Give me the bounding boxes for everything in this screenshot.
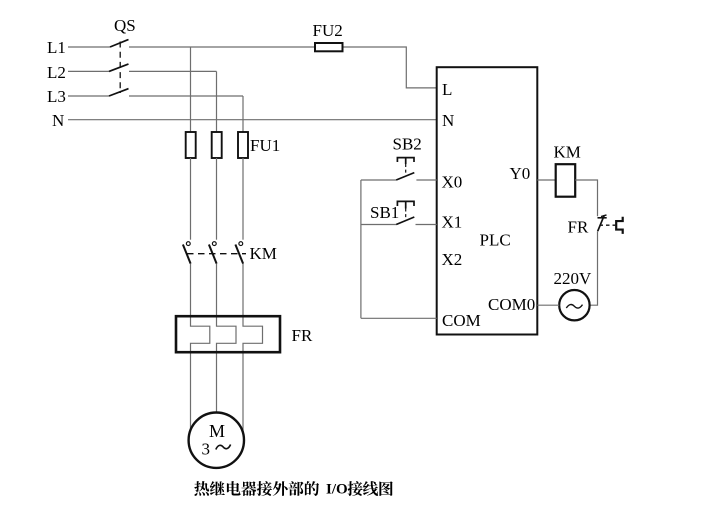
svg-text:PLC: PLC <box>480 231 511 250</box>
wire phase A drop <box>190 47 192 132</box>
thermal relay FR heater box <box>176 316 280 352</box>
svg-text:X0: X0 <box>442 173 463 192</box>
fuse FU2 <box>315 43 343 51</box>
wire L3 left <box>68 95 109 97</box>
contact FR thermal detent <box>616 217 623 234</box>
wire input common rail <box>360 180 362 318</box>
svg-text:N: N <box>442 111 454 130</box>
wire phase C drop <box>242 96 244 132</box>
fuse FU1 element 1 <box>186 132 196 158</box>
wire X1 left segment <box>361 224 396 226</box>
wire COM0 <box>537 304 559 306</box>
source V1 circle <box>559 290 589 320</box>
svg-text:KM: KM <box>250 244 277 263</box>
svg-text:X2: X2 <box>442 250 463 269</box>
svg-text:FR: FR <box>568 218 589 237</box>
contactor KM contact 3 <box>235 242 243 264</box>
svg-text:SB2: SB2 <box>393 135 422 154</box>
contact FR trip dashed <box>600 224 616 226</box>
wire L1 left <box>68 46 110 48</box>
pushbutton SB2 blade <box>396 173 414 180</box>
fuse FU1 element 2 <box>212 132 222 158</box>
switch QS linkage dashed <box>119 42 121 94</box>
fuse FU1 element 3 <box>238 132 248 158</box>
contactor KM contact 1 <box>183 242 191 264</box>
svg-text:L2: L2 <box>47 63 66 82</box>
contact FR blade tip tick <box>601 215 607 217</box>
contact FR NC bar <box>598 217 607 219</box>
svg-text:N: N <box>52 111 64 130</box>
pushbutton SB2 cap <box>397 158 414 164</box>
svg-text:COM0: COM0 <box>488 295 535 314</box>
svg-text:3: 3 <box>202 440 211 459</box>
source V1 tilde <box>566 304 582 308</box>
caption chinese title <box>194 481 393 496</box>
svg-text:FR: FR <box>292 326 313 345</box>
svg-text:FU2: FU2 <box>313 21 343 40</box>
wire phase A fuse to contact <box>190 158 192 240</box>
svg-text:X1: X1 <box>442 213 463 232</box>
switch QS pole 1 blade <box>110 40 129 48</box>
wire FR to source <box>590 231 598 305</box>
wire COM <box>361 317 437 319</box>
wire X1 right segment <box>416 224 437 226</box>
motor M1 circle <box>189 413 244 468</box>
wire L2 to drop <box>129 70 217 72</box>
pushbutton SB1 plunger dashed <box>405 209 407 219</box>
contactor KM contact 2 <box>209 242 217 264</box>
svg-text:KM: KM <box>554 143 581 162</box>
wire phase B drop <box>216 71 218 132</box>
svg-text:Y0: Y0 <box>510 164 531 183</box>
motor M1 tilde <box>216 445 231 450</box>
wire N <box>68 119 437 121</box>
switch QS pole 2 blade <box>109 64 129 71</box>
wire X0 left segment <box>361 179 396 181</box>
PLC box U1 <box>437 67 538 334</box>
pushbutton SB2 plunger dashed <box>405 164 407 175</box>
wire L1 fuse FU2 segment <box>343 47 437 88</box>
svg-text:L1: L1 <box>47 38 66 57</box>
contactor coil KM <box>556 164 576 197</box>
pushbutton SB1 cap <box>397 201 414 208</box>
svg-text:L3: L3 <box>47 87 66 106</box>
wire L2 left <box>68 70 109 72</box>
svg-text:I/O: I/O <box>326 482 348 498</box>
wire L3 to drop <box>129 95 243 97</box>
wire phase B through FR heater <box>217 264 237 413</box>
wire phase A through FR heater <box>191 264 210 431</box>
wire phase C fuse to contact <box>242 158 244 240</box>
svg-text:L: L <box>442 80 452 99</box>
pushbutton SB1 blade <box>396 217 414 225</box>
contact FR blade <box>598 215 605 231</box>
contactor KM linkage dashed <box>187 253 246 255</box>
wire X0 right segment <box>416 179 436 181</box>
svg-text:COM: COM <box>442 311 481 330</box>
wire coil to corner <box>575 180 597 216</box>
wire Y0 to coil <box>537 179 555 181</box>
wire phase B fuse to contact <box>216 158 218 240</box>
svg-text:QS: QS <box>114 16 136 35</box>
svg-text:FU1: FU1 <box>250 136 280 155</box>
wire L1 to FU2 <box>129 46 315 48</box>
switch QS pole 3 blade <box>109 89 129 96</box>
svg-text:M: M <box>209 421 225 441</box>
svg-text:SB1: SB1 <box>370 203 399 222</box>
wire phase C through FR heater <box>243 264 263 433</box>
svg-text:220V: 220V <box>554 269 593 288</box>
